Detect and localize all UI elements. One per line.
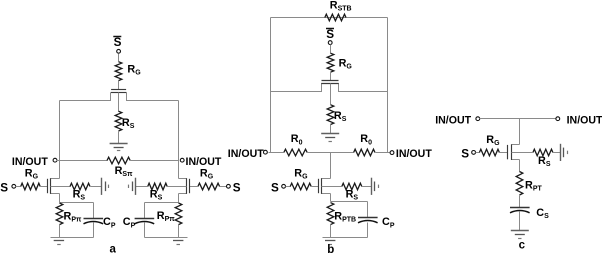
svg-text:RG: RG bbox=[200, 167, 214, 180]
wire bbox=[476, 152, 480, 154]
label IN/OUT (left, b) bbox=[228, 148, 264, 160]
wire M1 source tap bbox=[118, 93, 120, 112]
terminal IN/OUT left (b) bbox=[264, 150, 268, 154]
wire bbox=[269, 152, 284, 154]
transistor M5 gate bar bbox=[318, 179, 320, 193]
net S-bar (circuit a) terminal label bbox=[113, 36, 121, 49]
wire bbox=[91, 186, 102, 188]
resistor RPpi (left, a) bbox=[56, 203, 63, 225]
label R0 (left, b) bbox=[291, 133, 303, 146]
net S-bar (circuit b) terminal label bbox=[326, 28, 334, 41]
resistor RG (top, b) bbox=[327, 53, 334, 72]
wire top rail (b) bbox=[271, 17, 388, 19]
terminal IN/OUT right (circuit a) bbox=[180, 158, 184, 162]
wire bbox=[308, 152, 354, 154]
label S (c) bbox=[461, 147, 469, 160]
wire RC bottom rail (left, a) bbox=[51, 237, 94, 239]
wire bbox=[118, 132, 120, 144]
svg-text:RPπ: RPπ bbox=[157, 210, 175, 223]
svg-text:RPT: RPT bbox=[525, 180, 542, 193]
label IN/OUT (right, c) bbox=[567, 115, 602, 127]
ground (below RC left, a) bbox=[54, 241, 64, 245]
wire right rail (b) bbox=[387, 18, 389, 153]
resistor R0 right (b) bbox=[354, 149, 375, 156]
svg-text:S: S bbox=[233, 181, 241, 194]
wire node to drain (b) bbox=[330, 153, 332, 179]
ground (sideways, b) bbox=[372, 178, 379, 195]
resistor RS (c) bbox=[533, 149, 553, 156]
wire bbox=[93, 223, 95, 238]
resistor RS (below M4) bbox=[327, 105, 334, 125]
label RPpi (right, a) bbox=[157, 210, 175, 223]
svg-text:RSTB: RSTB bbox=[330, 0, 352, 13]
wire M4 source tap bbox=[330, 84, 332, 105]
label IN/OUT (right, b) bbox=[396, 148, 432, 160]
transistor M2 gate bar bbox=[47, 179, 49, 193]
svg-text:RS: RS bbox=[73, 189, 86, 202]
wire bbox=[16, 186, 21, 188]
ground (below RC right, a) bbox=[173, 241, 183, 245]
svg-text:RG: RG bbox=[339, 57, 353, 70]
label RS (c) bbox=[538, 155, 551, 168]
capacitor CS (c) bbox=[510, 208, 530, 213]
terminal S left (circuit a) bbox=[12, 184, 16, 188]
resistor RS (bottom, b) bbox=[342, 183, 362, 190]
svg-text:IN/OUT: IN/OUT bbox=[12, 156, 48, 168]
resistor RS (right bottom, a) bbox=[148, 183, 168, 190]
wire RC top rail (b) bbox=[331, 201, 368, 203]
svg-text:S: S bbox=[0, 181, 8, 194]
svg-text:S: S bbox=[271, 181, 279, 194]
wire right rail circuit a bbox=[178, 101, 180, 179]
label S (left, circuit a) bbox=[0, 181, 8, 194]
label CS bbox=[536, 207, 549, 220]
ground (sideways, c) bbox=[561, 144, 568, 161]
resistor RPT (c) bbox=[516, 172, 523, 196]
svg-text:S: S bbox=[461, 147, 469, 160]
svg-text:S: S bbox=[114, 36, 122, 49]
resistor RPTB (b) bbox=[327, 203, 334, 225]
label c (figure c) bbox=[519, 239, 526, 251]
label RS (below M4) bbox=[334, 110, 347, 123]
wire bbox=[312, 186, 319, 188]
svg-text:RS: RS bbox=[122, 117, 135, 130]
wire bbox=[144, 203, 146, 219]
transistor M4 gate bar (b top) bbox=[322, 80, 339, 82]
transistor M1 channel (circuit a top) bbox=[60, 93, 179, 101]
ground (below RS, b) bbox=[321, 134, 339, 142]
label IN/OUT (right, circuit a) bbox=[186, 156, 222, 168]
label RPTB bbox=[334, 210, 356, 223]
terminal IN/OUT right (b) bbox=[390, 151, 394, 155]
svg-text:a: a bbox=[110, 244, 117, 254]
terminal S (b) bbox=[282, 184, 286, 188]
svg-text:S: S bbox=[326, 28, 334, 41]
wire M6 mid tap bbox=[512, 152, 533, 154]
terminal S right (circuit a) bbox=[227, 184, 231, 188]
svg-text:RG: RG bbox=[294, 167, 308, 180]
terminal S (c) bbox=[472, 151, 476, 155]
transistor M3 gate bar bbox=[189, 179, 191, 193]
wire left rail (b) bbox=[270, 18, 272, 153]
resistor RPpi (right, a) bbox=[175, 203, 182, 225]
svg-text:RG: RG bbox=[486, 134, 500, 147]
transistor M4 channel (b top) bbox=[271, 84, 388, 92]
wire gate lead bbox=[118, 81, 120, 90]
resistor RS (left bottom, a) bbox=[70, 183, 90, 190]
label RG (left bottom, a) bbox=[25, 167, 39, 180]
label RG (bottom, b) bbox=[294, 167, 308, 180]
label RSpi bbox=[115, 165, 133, 178]
wire RC top rail (right, a) bbox=[145, 202, 179, 204]
svg-text:RG: RG bbox=[25, 167, 39, 180]
terminal IN/OUT right (c) bbox=[556, 117, 560, 121]
label RS (bottom, b) bbox=[346, 189, 359, 202]
label RG (top, b) bbox=[339, 57, 353, 70]
resistor RS (below M1) bbox=[115, 111, 122, 131]
wire bbox=[144, 223, 146, 238]
svg-text:IN/OUT: IN/OUT bbox=[396, 148, 432, 160]
wire gate lead right bbox=[190, 186, 198, 188]
wire RC top rail (left, a) bbox=[60, 202, 94, 204]
wire bbox=[57, 160, 108, 162]
wire bbox=[480, 118, 556, 120]
label CP (b) bbox=[382, 216, 395, 229]
wire bbox=[519, 212, 521, 231]
label S (right, circuit a) bbox=[233, 181, 241, 194]
wire bbox=[59, 225, 61, 238]
transistor M6 channel bbox=[512, 144, 520, 160]
label S (b) bbox=[271, 181, 279, 194]
label RS bbox=[122, 117, 135, 130]
wire M3 source bbox=[178, 194, 180, 203]
resistor RSTB (b) bbox=[325, 14, 346, 21]
wire bbox=[330, 225, 332, 238]
resistor RG (bottom, b) bbox=[290, 183, 311, 190]
wire bbox=[178, 225, 180, 238]
wire bbox=[500, 152, 508, 154]
transistor M1 gate bar (circuit a top) bbox=[111, 89, 126, 91]
wire bbox=[131, 160, 179, 162]
wire bbox=[220, 186, 227, 188]
ground (sideways, left RS, a) bbox=[102, 178, 109, 195]
capacitor CP (left, a) bbox=[84, 219, 104, 224]
wire bbox=[553, 152, 561, 154]
svg-text:c: c bbox=[519, 239, 526, 251]
wire left rail circuit a bbox=[59, 101, 61, 179]
wire M5 source bbox=[330, 194, 332, 202]
svg-text:RPTB: RPTB bbox=[334, 210, 356, 223]
capacitor CP (right, a) bbox=[135, 219, 155, 224]
svg-text:IN/OUT: IN/OUT bbox=[567, 115, 602, 127]
terminal IN/OUT left (circuit a) bbox=[53, 158, 57, 162]
wire RC bottom rail (b) bbox=[323, 237, 368, 239]
label b (figure b) bbox=[327, 244, 334, 254]
capacitor CP (b) bbox=[358, 218, 378, 223]
svg-text:IN/OUT: IN/OUT bbox=[228, 148, 264, 160]
wire bbox=[41, 186, 48, 188]
wire node to drain (c) bbox=[519, 119, 521, 145]
svg-text:RS: RS bbox=[150, 189, 163, 202]
label RS (right bottom, a) bbox=[150, 189, 163, 202]
svg-text:CP: CP bbox=[123, 216, 136, 229]
wire bbox=[93, 203, 95, 219]
svg-text:RG: RG bbox=[127, 64, 141, 77]
svg-text:b: b bbox=[327, 244, 334, 254]
transistor M5 channel bbox=[322, 178, 331, 194]
label RS (left bottom, a) bbox=[73, 189, 86, 202]
wire bbox=[376, 152, 390, 154]
wire bbox=[367, 202, 369, 218]
ground (below CS, c) bbox=[511, 231, 529, 239]
terminal IN/OUT left (c) bbox=[476, 117, 480, 121]
wire gate lead bbox=[330, 73, 332, 81]
resistor RSpi (circuit a) bbox=[107, 157, 130, 164]
terminal S-bar (circuit a) bbox=[117, 49, 121, 53]
wire bbox=[330, 45, 332, 54]
ground (below RC, b) bbox=[325, 241, 335, 245]
resistor RG (left, circuit a) bbox=[21, 183, 41, 190]
label IN/OUT (left, c) bbox=[435, 115, 471, 127]
svg-text:RS: RS bbox=[334, 110, 347, 123]
label RG (c) bbox=[486, 134, 500, 147]
label a (figure a) bbox=[110, 244, 117, 254]
svg-text:CP: CP bbox=[103, 216, 116, 229]
label IN/OUT (left, circuit a) bbox=[12, 156, 48, 168]
label CP (right, a) bbox=[123, 216, 136, 229]
wire M2 mid tap bbox=[51, 186, 71, 188]
wire bbox=[118, 54, 120, 62]
wire bbox=[330, 125, 332, 134]
label RPpi (left, a) bbox=[64, 210, 82, 223]
ground (below RS, circuit a) bbox=[110, 144, 128, 151]
svg-text:CS: CS bbox=[536, 207, 549, 220]
wire bbox=[367, 223, 369, 238]
transistor M3 channel bbox=[179, 178, 187, 194]
svg-text:RPπ: RPπ bbox=[64, 210, 82, 223]
label RSTB bbox=[330, 0, 352, 13]
label RG (right bottom, a) bbox=[200, 167, 214, 180]
svg-text:IN/OUT: IN/OUT bbox=[186, 156, 222, 168]
label R0 (right, b) bbox=[360, 133, 372, 146]
svg-text:IN/OUT: IN/OUT bbox=[435, 115, 471, 127]
terminal S-bar (b) bbox=[328, 41, 332, 45]
label CP (left, a) bbox=[103, 216, 116, 229]
resistor R0 left (b) bbox=[284, 149, 307, 156]
svg-text:R0: R0 bbox=[360, 133, 372, 146]
svg-text:R0: R0 bbox=[291, 133, 303, 146]
svg-text:CP: CP bbox=[382, 216, 395, 229]
svg-text:RSπ: RSπ bbox=[115, 165, 133, 178]
transistor M2 channel bbox=[51, 178, 60, 194]
wire M3 mid tap bbox=[168, 186, 187, 188]
transistor M6 gate bar bbox=[507, 145, 509, 159]
resistor RG (right, circuit a) bbox=[198, 183, 220, 190]
label RPT bbox=[525, 180, 542, 193]
wire bbox=[136, 186, 148, 188]
resistor RG (c) bbox=[479, 149, 499, 156]
wire RC bottom rail (right, a) bbox=[145, 237, 188, 239]
wire bbox=[519, 196, 521, 208]
wire M2 source bbox=[59, 194, 61, 203]
wire M5 mid tap bbox=[322, 186, 342, 188]
wire bbox=[286, 186, 291, 188]
wire M6 source bbox=[519, 160, 521, 172]
label RG bbox=[127, 64, 141, 77]
wire bbox=[362, 186, 372, 188]
ground (sideways, right RS, a) bbox=[129, 178, 136, 195]
svg-text:RS: RS bbox=[346, 189, 359, 202]
resistor RG (top, circuit a) bbox=[115, 62, 122, 81]
